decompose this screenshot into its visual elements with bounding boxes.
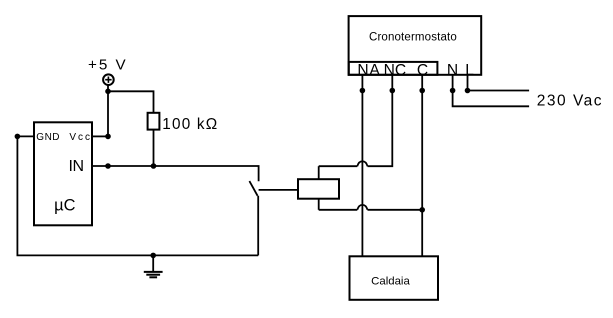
svg-text:NA: NA (357, 62, 380, 79)
svg-text:IN: IN (69, 158, 84, 175)
svg-text:GND: GND (36, 132, 60, 143)
svg-text:Caldaia: Caldaia (371, 276, 410, 288)
svg-text:L: L (465, 62, 474, 79)
svg-text:230 Vac: 230 Vac (537, 92, 603, 109)
svg-text:100 kΩ: 100 kΩ (162, 116, 218, 133)
svg-text:+5 V: +5 V (88, 56, 128, 73)
svg-text:µC: µC (54, 196, 75, 214)
svg-text:C: C (417, 62, 428, 79)
svg-text:Cronotermostato: Cronotermostato (369, 32, 457, 44)
svg-text:NC: NC (384, 62, 407, 79)
svg-text:N: N (447, 62, 458, 79)
svg-text:Vcc: Vcc (69, 132, 92, 143)
